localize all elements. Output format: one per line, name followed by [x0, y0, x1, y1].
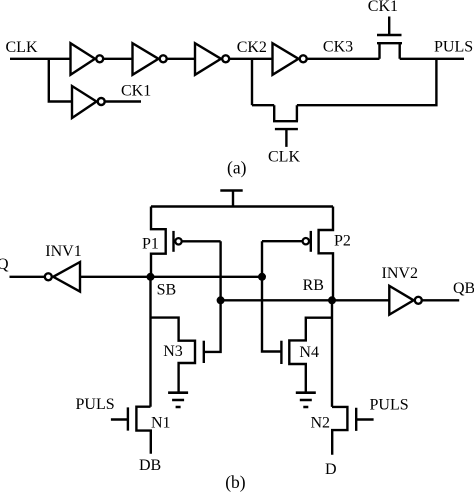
wire CK3 node	[307, 58, 379, 60]
wire RB node	[221, 299, 390, 301]
transistor M2 channel	[273, 105, 298, 121]
svg-text:Q: Q	[0, 256, 9, 273]
transistor N4 gate	[280, 341, 282, 364]
wire RB column down to N2	[331, 300, 333, 407]
transistor P2 gate	[262, 231, 311, 252]
svg-text:CLK: CLK	[268, 149, 300, 166]
transistor N1 channel	[136, 407, 150, 454]
ground below N3	[168, 393, 188, 407]
inverter I5 CK2 to CK3	[273, 43, 307, 75]
transistor N4 channel	[289, 318, 332, 392]
transistor N2 channel	[332, 407, 347, 455]
transistor N1 gate	[111, 407, 128, 430]
wire CK2 node	[230, 58, 273, 60]
svg-text:P1: P1	[142, 236, 159, 253]
wire branch to CK1 inverter	[49, 59, 72, 102]
transistor N2 gate	[356, 408, 373, 431]
svg-text:INV1: INV1	[45, 243, 81, 260]
wire VDD rail	[151, 205, 333, 207]
svg-text:PULS: PULS	[76, 396, 115, 413]
power VDD bar	[220, 191, 242, 207]
wire M2 left to CK2 branch	[252, 104, 274, 106]
svg-text:PULS: PULS	[434, 39, 473, 56]
inverter I2	[133, 43, 167, 75]
wire CLK input	[10, 58, 70, 60]
junction P2 gate to SB dot	[258, 273, 266, 281]
junction RB column dot	[328, 296, 336, 304]
svg-text:CLK: CLK	[6, 39, 38, 56]
svg-text:SB: SB	[157, 282, 177, 299]
svg-text:CK3: CK3	[323, 39, 353, 56]
wire PULS drop to bottom return	[297, 59, 437, 105]
wire SB column down to N1	[149, 277, 151, 407]
svg-text:RB: RB	[303, 277, 324, 294]
junction P1 gate to RB dot	[217, 296, 225, 304]
transistor M1 gate	[377, 17, 402, 36]
wire PULS node	[400, 58, 464, 60]
wire CK2 branch down to NMOS M2	[251, 59, 253, 105]
wire I2 to I3	[167, 58, 195, 60]
svg-text:N1: N1	[151, 415, 171, 432]
svg-text:CK2: CK2	[237, 39, 267, 56]
svg-text:(b): (b)	[225, 472, 246, 492]
wire I4 output CK1	[105, 100, 141, 102]
junction SB dot	[147, 273, 155, 281]
svg-text:N4: N4	[299, 344, 319, 361]
wire cross-couple RB to P1/N3 gates	[204, 241, 221, 352]
transistor M2 gate	[275, 129, 298, 147]
transistor N3 channel	[151, 318, 196, 392]
svg-text:(a): (a)	[227, 158, 247, 178]
svg-text:QB: QB	[453, 280, 474, 297]
transistor P2 channel	[319, 207, 333, 301]
transistor M1 channel	[377, 43, 402, 59]
wire cross-couple SB to P2/N4 gates	[262, 241, 281, 351]
svg-text:N3: N3	[163, 343, 183, 360]
transistor P1 gate	[174, 231, 221, 252]
svg-text:N2: N2	[311, 415, 331, 432]
inverter I4 CK1 branch	[72, 86, 105, 118]
svg-text:CK1: CK1	[121, 82, 151, 99]
svg-text:D: D	[325, 461, 337, 478]
svg-text:INV2: INV2	[382, 265, 418, 282]
svg-text:CK1: CK1	[368, 0, 398, 15]
inverter I1	[71, 43, 104, 75]
svg-text:DB: DB	[139, 457, 161, 474]
wire I1 to I2	[104, 58, 133, 60]
inverter INV2	[389, 286, 422, 315]
inverter INV1	[45, 262, 80, 292]
wire INV2 to QB	[422, 299, 459, 301]
svg-text:PULS: PULS	[370, 397, 409, 414]
transistor P1 channel	[151, 207, 166, 277]
wire SB node	[80, 276, 262, 278]
wire Q to INV1	[10, 276, 45, 278]
ground below N4	[296, 393, 316, 407]
transistor N3 gate	[203, 341, 205, 363]
svg-text:P2: P2	[334, 233, 351, 250]
inverter I3	[195, 43, 229, 75]
